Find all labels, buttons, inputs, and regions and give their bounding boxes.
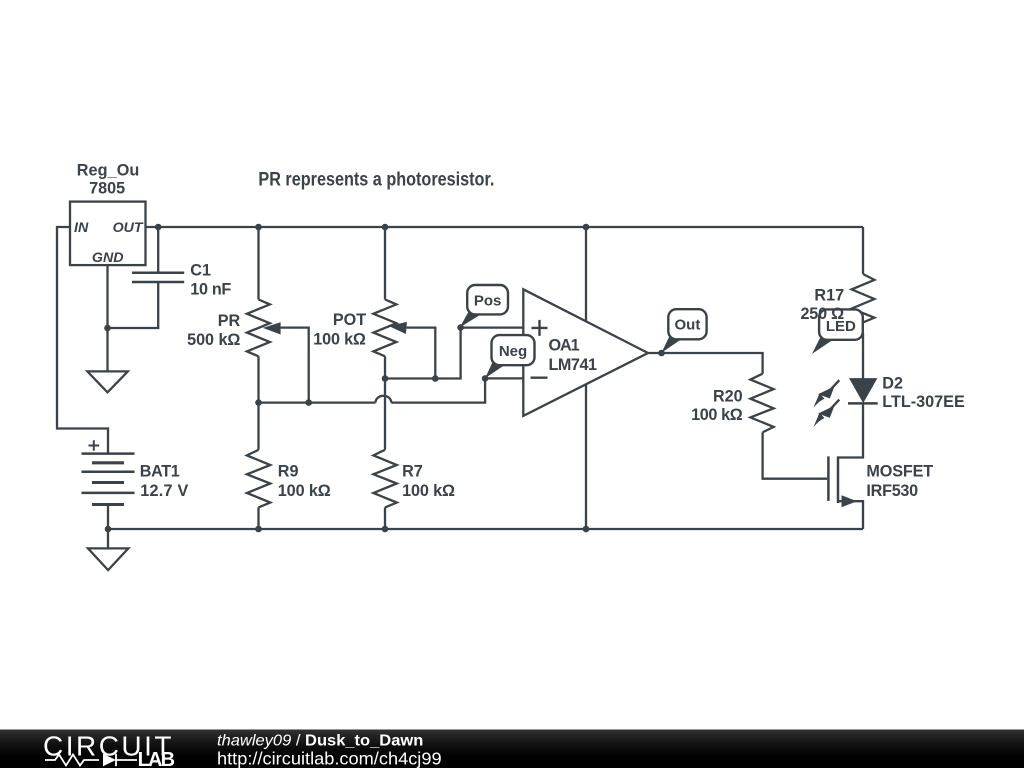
wire bottom ground bus: [108, 528, 863, 530]
junction battery ground bus: [105, 526, 112, 533]
wire neg net horizontal left: [259, 401, 376, 403]
junction R7 ground bus: [382, 526, 389, 533]
MOSFET Q1 gate bar: [827, 456, 830, 501]
resistor R17 zigzag: [852, 274, 875, 333]
wire C1 branch from top bus: [157, 227, 159, 273]
callout tail LED: [812, 335, 840, 354]
footer bar: [0, 730, 1024, 768]
callout tail Neg: [485, 360, 512, 378]
svg-text:D2: D2: [882, 375, 903, 393]
svg-text:100 kΩ: 100 kΩ: [691, 406, 743, 424]
wire pos net: [385, 328, 461, 379]
junction R9 ground bus: [255, 526, 262, 533]
regulator U1 7805 box: [70, 202, 146, 266]
wire POT bottom through node to R7: [384, 356, 386, 450]
svg-text:IN: IN: [74, 220, 89, 236]
junction POT wiper: [432, 375, 439, 382]
wire POT wiper to pos node: [407, 328, 436, 379]
svg-text:GND: GND: [92, 250, 124, 266]
op-amp OA1 triangle: [523, 289, 648, 416]
svg-text:100 kΩ: 100 kΩ: [402, 482, 455, 500]
resistor POT 100k zigzag: [373, 300, 396, 357]
svg-text:thawley09 / Dusk_to_Dawn: thawley09 / Dusk_to_Dawn: [217, 733, 423, 750]
callout box Out: [668, 309, 706, 339]
svg-text:R20: R20: [713, 387, 743, 405]
svg-text:10 nF: 10 nF: [190, 281, 231, 299]
wire neg net horizontal right: [391, 378, 485, 402]
svg-text:LAB: LAB: [138, 749, 176, 768]
wire R7 bottom to ground bus: [384, 507, 386, 529]
junction PR top bus: [255, 224, 262, 231]
wire top bus corner down to R17: [862, 227, 864, 274]
resistor R9 zigzag: [247, 450, 270, 508]
wire regulator GND pin down: [106, 265, 108, 371]
junction C1 top bus: [155, 224, 162, 231]
wire PR wiper to neg node: [280, 328, 309, 403]
svg-text:R9: R9: [278, 463, 299, 481]
wire R9 bottom to ground bus: [257, 507, 259, 529]
svg-text:12.7 V: 12.7 V: [140, 482, 188, 500]
wire neg node to op-amp minus input: [485, 377, 523, 379]
logo resistor-diode squiggle: [45, 754, 137, 766]
op-amp plus symbol: [532, 320, 548, 336]
junction PR bottom: [255, 399, 262, 406]
junction PR wiper: [305, 399, 312, 406]
capacitor C1 top plate: [132, 272, 184, 275]
junction op-amp power ground bus: [583, 526, 590, 533]
svg-text:100 kΩ: 100 kΩ: [313, 330, 366, 348]
wire MOSFET source to ground bus: [838, 501, 863, 529]
callout tail Out: [662, 334, 690, 353]
MOSFET Q1 channel bar: [837, 456, 840, 503]
junction regulator GND node: [104, 325, 111, 332]
svg-text:250 Ω: 250 Ω: [801, 305, 845, 323]
svg-text:http://circuitlab.com/ch4cj99: http://circuitlab.com/ch4cj99: [217, 748, 442, 768]
svg-text:R17: R17: [814, 286, 844, 304]
op-amp minus symbol: [531, 377, 548, 379]
svg-text:R7: R7: [402, 463, 423, 481]
svg-text:POT: POT: [333, 311, 366, 329]
MOSFET Q1 source arrow: [842, 495, 858, 507]
svg-text:OUT: OUT: [113, 220, 144, 236]
wire LED cathode to MOSFET drain: [838, 403, 863, 457]
wire POT branch from top bus: [384, 227, 386, 300]
callout box LED: [819, 309, 863, 339]
svg-text:Pos: Pos: [474, 293, 502, 310]
junction op-amp power top bus: [583, 224, 590, 231]
capacitor C1 bottom plate: [132, 281, 184, 284]
wire PR branch from top bus: [257, 227, 259, 300]
node Pos: [457, 324, 464, 331]
LED light arrow lower: [829, 400, 840, 412]
callout tail Pos: [460, 310, 488, 328]
callout box Neg: [492, 335, 535, 365]
wire top supply bus: [147, 226, 864, 228]
resistor R20 zigzag: [750, 374, 773, 433]
svg-text:PR represents a photoresistor.: PR represents a photoresistor.: [258, 169, 494, 190]
wire R17 bottom to LED: [862, 333, 864, 379]
svg-text:OA1: OA1: [549, 336, 580, 354]
resistor PR 500k zigzag: [247, 300, 270, 357]
svg-text:Out: Out: [674, 317, 700, 334]
svg-text:7805: 7805: [89, 179, 125, 197]
wire battery minus lead: [107, 504, 109, 529]
potentiometer POT wiper arrowhead: [389, 322, 407, 334]
wire PR bottom to node: [257, 356, 259, 450]
wire hop over POT branch: [376, 396, 392, 403]
battery BAT1 plates: [82, 454, 135, 505]
svg-text:BAT1: BAT1: [140, 463, 180, 481]
svg-text:LM741: LM741: [549, 356, 598, 374]
LED light arrow upper: [829, 380, 840, 392]
callout box Pos: [467, 285, 508, 314]
svg-text:Reg_Ou: Reg_Ou: [77, 161, 140, 179]
svg-text:LTL-307EE: LTL-307EE: [882, 393, 965, 411]
wire pos node to op-amp plus input: [461, 326, 524, 328]
ground symbol under battery: [88, 548, 128, 570]
svg-text:500 kΩ: 500 kΩ: [187, 331, 240, 349]
svg-text:100 kΩ: 100 kΩ: [278, 482, 331, 500]
wire C1 bottom to GND node: [108, 282, 159, 328]
junction POT bottom: [382, 375, 389, 382]
svg-text:PR: PR: [218, 312, 241, 330]
svg-text:IRF530: IRF530: [866, 482, 918, 500]
ground symbol under regulator: [87, 371, 127, 392]
wire op-amp power rail vertical: [585, 227, 587, 529]
node Out: [658, 350, 665, 357]
potentiometer PR wiper arrowhead: [263, 322, 281, 334]
resistor R7 zigzag: [373, 450, 396, 508]
LED D2 triangle: [850, 379, 876, 402]
wire op-amp output to R20 and MOSFET gate: [648, 353, 827, 479]
wire left from regulator IN down to battery: [57, 227, 108, 454]
LED D2 cathode bar: [848, 402, 878, 405]
wire battery node to ground symbol: [107, 529, 109, 548]
node Neg: [482, 375, 489, 382]
battery BAT1 plus sign: [89, 440, 100, 451]
junction POT top bus: [382, 224, 389, 231]
svg-text:C1: C1: [190, 261, 211, 279]
svg-text:Neg: Neg: [499, 343, 527, 360]
svg-text:MOSFET: MOSFET: [866, 462, 933, 480]
